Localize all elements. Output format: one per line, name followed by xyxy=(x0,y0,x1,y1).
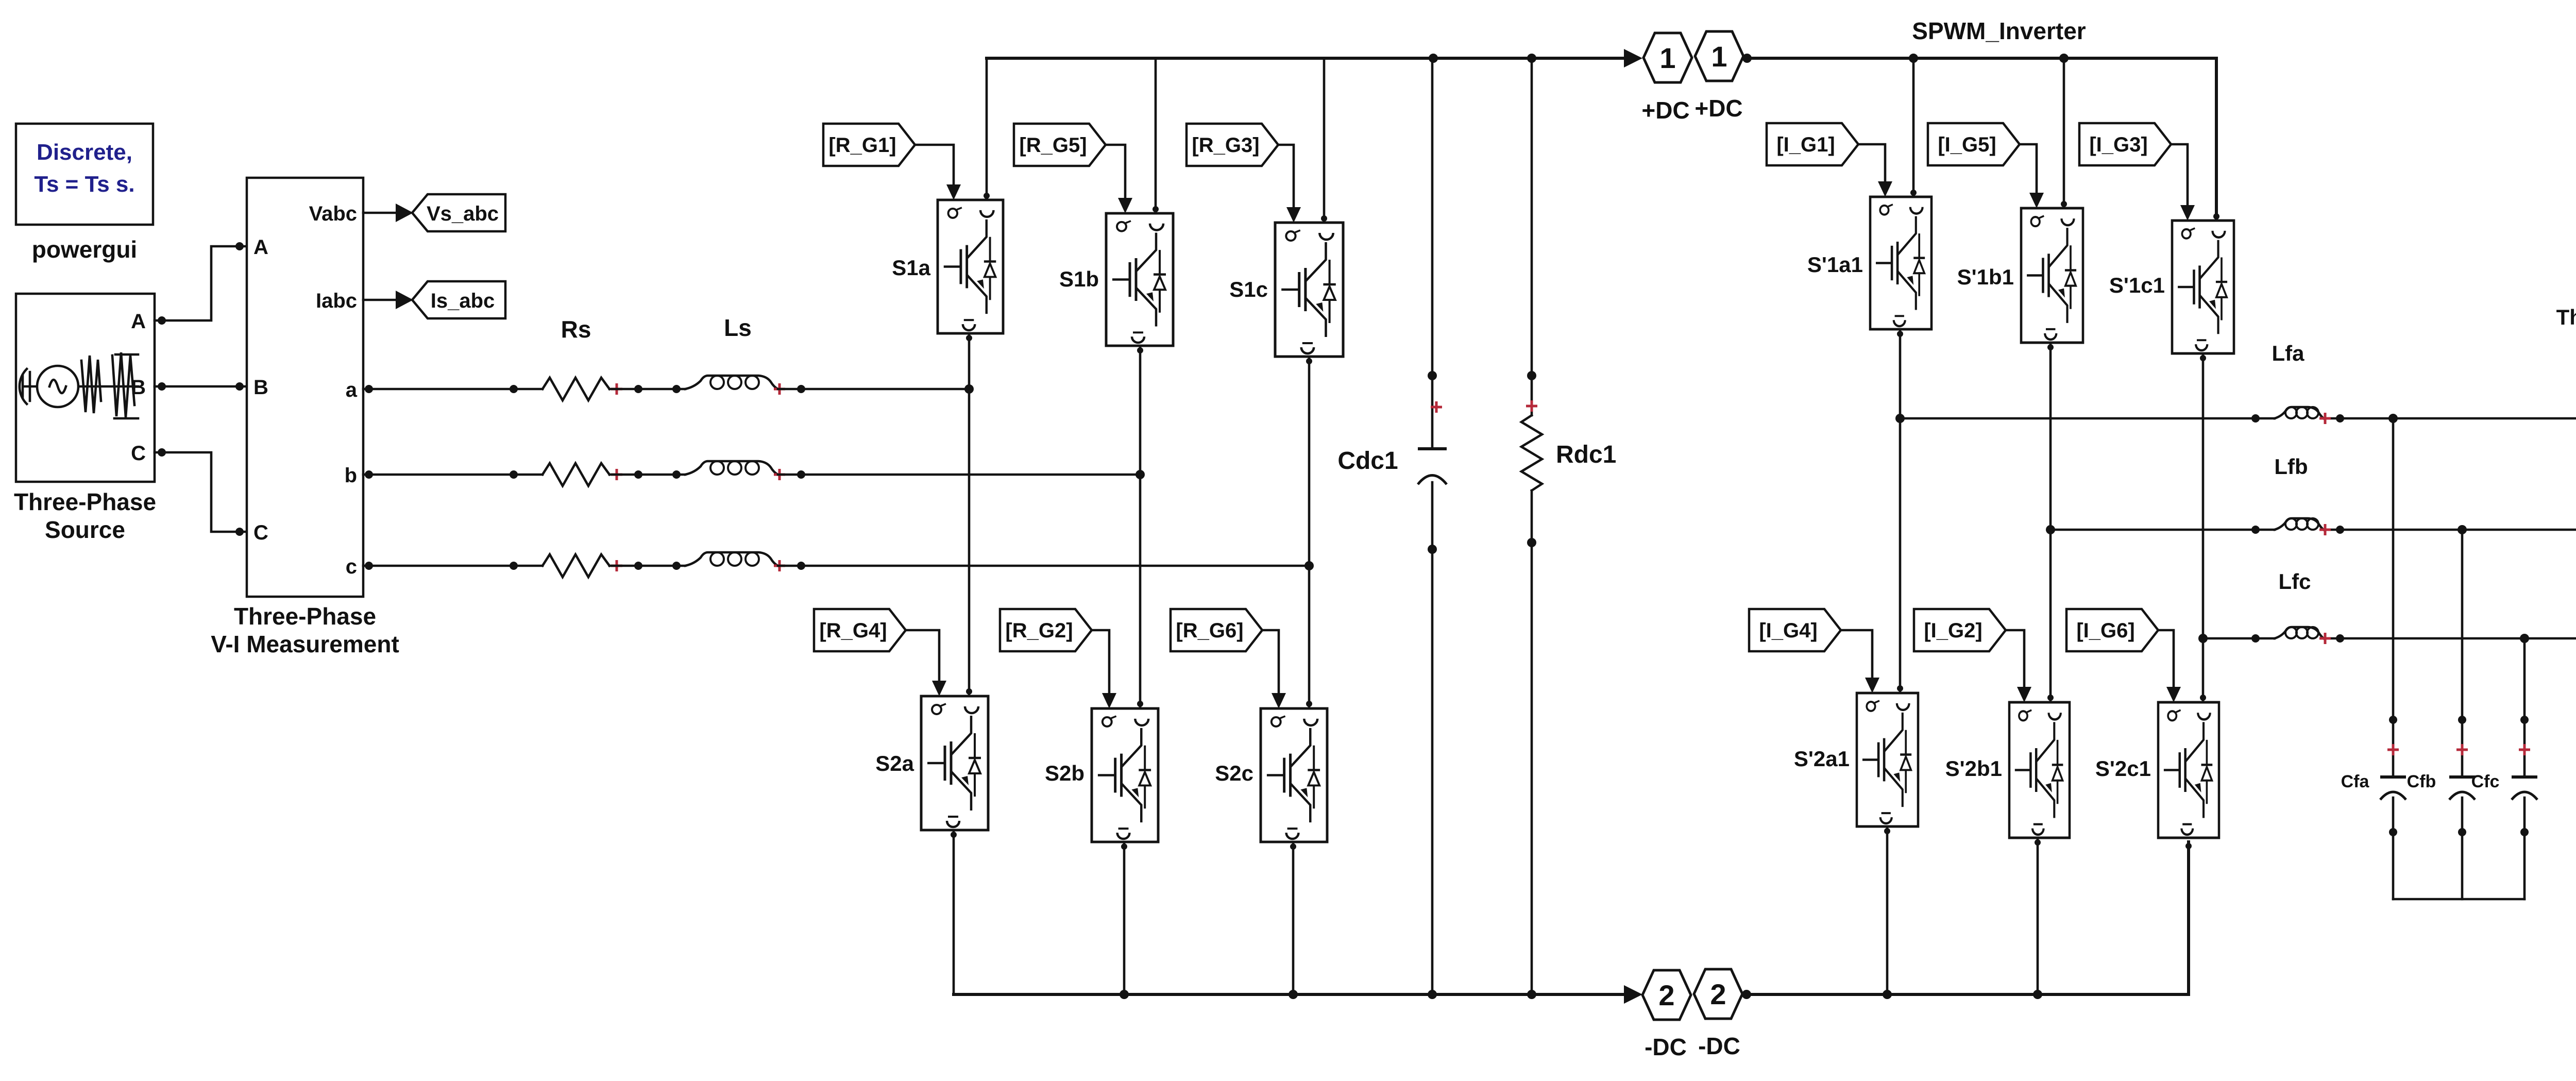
svg-text:A: A xyxy=(253,236,268,259)
wire source C to measurement C xyxy=(155,448,247,536)
svg-text:Lfc: Lfc xyxy=(2279,569,2311,594)
transistor S1a (IGBT/diode) xyxy=(892,200,1003,333)
wire S2a emitter to -DC bus xyxy=(951,830,957,994)
port connector 2 (right) xyxy=(1694,969,1742,1059)
wire S2b emitter to -DC bus xyxy=(1120,842,1129,999)
transistor S'1a1 (IGBT/diode) xyxy=(1807,197,1931,329)
svg-text:Lfb: Lfb xyxy=(2274,454,2308,479)
inductor Lfb xyxy=(2274,454,2331,535)
svg-text:C: C xyxy=(131,442,146,465)
inductor Ls phase a xyxy=(685,376,785,395)
transistor S2a (IGBT/diode) xyxy=(875,696,988,830)
wire source B to measurement B xyxy=(155,382,247,391)
capacitor Cfb xyxy=(2407,530,2475,899)
source icon xyxy=(20,352,138,418)
svg-text:S'1a1: S'1a1 xyxy=(1807,252,1863,277)
wire filter capacitor common bus xyxy=(2393,898,2524,901)
svg-text:[R_G5]: [R_G5] xyxy=(1019,134,1087,157)
wire Ls to inverter leg phase b xyxy=(778,470,1145,479)
transistor S'2b1 (IGBT/diode) xyxy=(1945,702,2070,838)
wire measurement b to Rs xyxy=(363,470,543,479)
svg-text:1: 1 xyxy=(1711,40,1727,73)
transistor S'2c1 (IGBT/diode) xyxy=(2095,702,2219,838)
inductor Lfa xyxy=(2272,341,2331,424)
svg-text:S'2a1: S'2a1 xyxy=(1794,747,1850,771)
svg-text:2: 2 xyxy=(1658,979,1674,1011)
from tag I_G6 xyxy=(2066,609,2158,651)
svg-text:+DC: +DC xyxy=(1641,97,1689,124)
wire inverter leg b (S'1b1 emitter to S'2b1 collector) xyxy=(2046,343,2055,702)
resistor Rs phase c xyxy=(543,554,622,577)
svg-text:[I_G6]: [I_G6] xyxy=(2076,619,2134,642)
svg-text:-DC: -DC xyxy=(1698,1033,1740,1059)
svg-text:S2a: S2a xyxy=(875,751,914,775)
wire +DC bus (top) xyxy=(987,54,1624,63)
svg-text:Cfb: Cfb xyxy=(2407,772,2436,791)
wire Rs to Ls phase a xyxy=(609,385,685,393)
svg-text:Rs: Rs xyxy=(561,316,591,343)
wire inverter phase c row to transformer xyxy=(2203,634,2576,643)
svg-text:powergui: powergui xyxy=(32,236,137,263)
wire measurement a to Rs xyxy=(363,385,543,393)
wire gate I_G5 to S1b1 xyxy=(2020,144,2044,208)
svg-text:Vabc: Vabc xyxy=(309,202,357,225)
svg-text:Three-Phase Transformer: Three-Phase Transformer xyxy=(2556,305,2576,329)
inductor Lfc xyxy=(2275,569,2331,644)
wire S2c emitter to -DC bus xyxy=(1289,842,1298,999)
svg-text:1: 1 xyxy=(1659,42,1675,74)
three-phase source block xyxy=(14,294,156,543)
svg-text:[I_G3]: [I_G3] xyxy=(2089,133,2147,156)
from tag R_G4 xyxy=(814,609,906,651)
svg-text:[I_G1]: [I_G1] xyxy=(1776,133,1835,156)
wire Iabc to Is_abc tag xyxy=(363,291,413,309)
svg-text:[R_G6]: [R_G6] xyxy=(1176,619,1243,642)
svg-text:Lfa: Lfa xyxy=(2272,341,2305,365)
wire Vabc to Vs_abc tag xyxy=(363,204,413,222)
powergui block xyxy=(16,124,153,263)
wire leg S1a emitter to S2a collector (phase a node) xyxy=(966,333,972,696)
transistor S'1c1 (IGBT/diode) xyxy=(2109,221,2234,353)
svg-text:[I_G4]: [I_G4] xyxy=(1759,619,1817,642)
svg-text:[R_G3]: [R_G3] xyxy=(1192,134,1259,157)
wire inverter leg c (S'1c1 emitter to S'2c1 collector) xyxy=(2198,353,2208,702)
svg-text:Discrete,: Discrete, xyxy=(37,140,132,165)
wire inverter leg a (S'1a1 emitter to S'2a1 collector) xyxy=(1895,329,1905,693)
transistor S2c (IGBT/diode) xyxy=(1215,708,1327,842)
wire gate R_G2 to S2b xyxy=(1092,630,1116,708)
wire Rs to Ls phase b xyxy=(609,470,685,479)
svg-text:B: B xyxy=(253,376,268,399)
wire gate I_G1 to S1a1 xyxy=(1858,144,1892,197)
wire S'2a1 emitter to -DC bus xyxy=(1884,826,1890,994)
from tag I_G3 xyxy=(2079,123,2171,165)
capacitor Cfa xyxy=(2341,418,2406,899)
resistor Rs phase b xyxy=(543,463,622,486)
svg-text:Cfc: Cfc xyxy=(2471,772,2500,791)
svg-text:Is_abc: Is_abc xyxy=(431,290,495,312)
wire -DC bus (bottom) xyxy=(954,990,1624,999)
wire inverter phase a row to transformer xyxy=(1900,414,2576,423)
from tag R_G2 xyxy=(1000,609,1092,651)
resistor Rs phase a xyxy=(543,378,622,400)
svg-text:a: a xyxy=(346,379,358,401)
transistor S2b (IGBT/diode) xyxy=(1045,708,1158,842)
svg-text:S'1b1: S'1b1 xyxy=(1957,265,2014,289)
wire leg S1c emitter to S2c collector (phase c node) xyxy=(1306,357,1312,708)
capacitor Cdc1 xyxy=(1337,58,1447,994)
goto tag Is_abc xyxy=(412,281,505,318)
port connector 2 (left) xyxy=(1624,970,1691,1060)
wire S'1b1 collector riser xyxy=(2061,58,2067,208)
svg-text:Vs_abc: Vs_abc xyxy=(427,202,499,225)
svg-text:[I_G2]: [I_G2] xyxy=(1924,619,1982,642)
wire S1b collector to +DC bus xyxy=(1153,58,1159,213)
wire measurement c to Rs xyxy=(363,562,543,570)
inductor Ls phase c xyxy=(685,552,785,571)
svg-text:Cdc1: Cdc1 xyxy=(1337,447,1398,475)
svg-text:S1c: S1c xyxy=(1229,277,1268,301)
svg-text:[I_G5]: [I_G5] xyxy=(1938,133,1996,156)
from tag R_G1 xyxy=(823,124,915,166)
svg-text:[R_G1]: [R_G1] xyxy=(828,134,896,157)
goto tag Vs_abc xyxy=(412,194,505,231)
svg-text:Rdc1: Rdc1 xyxy=(1556,441,1616,468)
svg-text:+DC: +DC xyxy=(1694,95,1742,122)
from tag I_G5 xyxy=(1928,123,2020,165)
three-phase transformer (isolation) block xyxy=(2556,305,2576,737)
wire Rs to Ls phase c xyxy=(609,562,685,570)
wire S1a collector to +DC bus xyxy=(984,58,990,200)
wire S1c collector to +DC bus xyxy=(1321,58,1327,223)
from tag R_G6 xyxy=(1171,609,1262,651)
transistor S'1b1 (IGBT/diode) xyxy=(1957,208,2083,343)
transistor S1b (IGBT/diode) xyxy=(1059,213,1173,346)
wire gate I_G2 to S2b1 xyxy=(2006,630,2031,702)
svg-text:Source: Source xyxy=(45,516,125,543)
svg-text:Ls: Ls xyxy=(724,314,752,341)
resistor Rdc1 xyxy=(1521,58,1616,994)
svg-text:Iabc: Iabc xyxy=(316,290,357,312)
capacitor Cfc xyxy=(2471,638,2537,899)
wire gate R_G4 to S2a xyxy=(906,630,946,696)
svg-text:S'2b1: S'2b1 xyxy=(1945,756,2002,781)
inductor Ls phase b xyxy=(685,461,785,480)
wire gate R_G5 to S1b xyxy=(1106,145,1132,213)
wire gate I_G6 to S2c1 xyxy=(2158,630,2181,702)
port connector 1 (right) xyxy=(1694,31,1743,122)
svg-text:S1b: S1b xyxy=(1059,267,1099,291)
wire source A to measurement A xyxy=(155,242,247,325)
svg-text:-DC: -DC xyxy=(1645,1034,1687,1060)
svg-text:Cfa: Cfa xyxy=(2341,772,2370,791)
from tag I_G1 xyxy=(1767,123,1858,165)
from tag R_G5 xyxy=(1014,124,1106,166)
svg-text:[R_G4]: [R_G4] xyxy=(819,619,887,642)
svg-text:S2b: S2b xyxy=(1045,761,1084,785)
from tag R_G3 xyxy=(1187,124,1278,166)
wire gate I_G4 to S2a1 xyxy=(1841,630,1879,693)
transistor S1c (IGBT/diode) xyxy=(1229,223,1343,357)
svg-text:S'2c1: S'2c1 xyxy=(2095,756,2151,781)
wire gate R_G1 to S1a xyxy=(915,145,961,200)
svg-text:S'1c1: S'1c1 xyxy=(2109,273,2165,297)
from tag I_G4 xyxy=(1749,609,1841,651)
svg-text:Three-Phase: Three-Phase xyxy=(234,603,376,630)
wire gate I_G3 to S1c1 xyxy=(2171,144,2195,221)
wire Ls to inverter leg phase a xyxy=(778,384,974,394)
svg-text:c: c xyxy=(346,555,357,578)
svg-text:S2c: S2c xyxy=(1215,761,1253,785)
svg-text:b: b xyxy=(345,464,357,487)
wire inverter phase b row to transformer xyxy=(2050,525,2576,534)
svg-text:Three-Phase: Three-Phase xyxy=(14,488,156,515)
wire S'2b1 emitter to -DC bus xyxy=(2035,838,2041,994)
wire gate R_G6 to S2c xyxy=(1262,630,1286,708)
wire -DC bus right of ports xyxy=(1742,842,2192,999)
transistor S'2a1 (IGBT/diode) xyxy=(1794,693,1918,826)
three-phase V-I measurement block xyxy=(211,178,399,657)
svg-text:Ts = Ts s.: Ts = Ts s. xyxy=(34,172,134,197)
wire Ls to inverter leg phase c xyxy=(778,561,1314,570)
svg-text:SPWM_Inverter: SPWM_Inverter xyxy=(1912,18,2086,44)
from tag I_G2 xyxy=(1914,609,2006,651)
svg-text:V-I Measurement: V-I Measurement xyxy=(211,631,399,657)
svg-text:[R_G2]: [R_G2] xyxy=(1005,619,1073,642)
wire +DC bus right of ports xyxy=(1742,54,2219,221)
svg-text:A: A xyxy=(131,310,146,333)
svg-text:C: C xyxy=(253,521,268,544)
wire leg S1b emitter to S2b collector (phase b node) xyxy=(1137,346,1143,708)
wire gate R_G3 to S1c xyxy=(1278,145,1301,223)
svg-text:2: 2 xyxy=(1710,978,1726,1010)
port connector 1 (left) xyxy=(1624,33,1692,124)
wire S'1a1 collector riser xyxy=(1910,58,1917,197)
svg-text:S1a: S1a xyxy=(892,256,930,280)
